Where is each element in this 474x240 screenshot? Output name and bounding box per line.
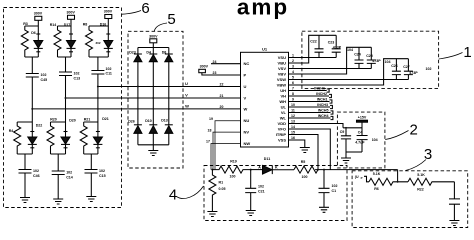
svg-text:INCH6: INCH6 bbox=[314, 87, 325, 91]
svg-text:100: 100 bbox=[302, 175, 308, 179]
svg-text:R8: R8 bbox=[83, 22, 88, 26]
svg-text:R3: R3 bbox=[23, 22, 28, 26]
svg-text:NU: NU bbox=[244, 118, 250, 123]
pin 24 NC stub bbox=[211, 63, 241, 65]
svg-text:D22: D22 bbox=[36, 124, 43, 128]
wire pin14 VFO bbox=[289, 129, 331, 170]
svg-text:R14: R14 bbox=[50, 23, 57, 27]
net INCH6 pin7 bbox=[289, 87, 330, 92]
wire pin5 VSW bbox=[289, 79, 409, 81]
wire pin6 VBW riser bbox=[289, 59, 409, 85]
wire pin2 VBU riser bbox=[289, 35, 337, 63]
wire bbox=[37, 20, 39, 26]
svg-text:102: 102 bbox=[426, 67, 432, 71]
ground bbox=[207, 212, 217, 217]
svg-text:R19: R19 bbox=[230, 160, 237, 164]
net INCH3 pin10 bbox=[289, 103, 333, 108]
svg-text:NW: NW bbox=[244, 141, 251, 146]
power +15V bbox=[357, 116, 368, 136]
svg-text:21: 21 bbox=[220, 94, 224, 98]
op-amp U1 package bbox=[241, 46, 289, 147]
wire pin17 NW bbox=[211, 144, 241, 170]
svg-text:C22: C22 bbox=[310, 39, 317, 43]
svg-text:D20: D20 bbox=[69, 118, 76, 122]
svg-text:D21: D21 bbox=[102, 117, 109, 121]
svg-text:20: 20 bbox=[220, 105, 224, 109]
svg-text:amp: amp bbox=[237, 0, 289, 20]
svg-text:18: 18 bbox=[208, 128, 212, 132]
svg-text:300V: 300V bbox=[34, 11, 43, 15]
ground bbox=[86, 197, 96, 202]
svg-text:C14: C14 bbox=[66, 176, 73, 180]
svg-text:NC: NC bbox=[244, 61, 250, 66]
wire unit6 loop rails bbox=[84, 122, 98, 154]
wire pin19 NU bbox=[215, 121, 241, 170]
svg-text:102: 102 bbox=[74, 72, 80, 76]
pin numbers right bbox=[291, 54, 295, 141]
svg-text:VBW: VBW bbox=[277, 82, 287, 87]
wire bbox=[152, 43, 154, 48]
net INCH2 pin8 bbox=[289, 92, 332, 97]
svg-text:4: 4 bbox=[169, 187, 177, 204]
capacitor C15 bbox=[85, 169, 106, 178]
pin labels left bbox=[244, 61, 251, 146]
node dots on rails bbox=[137, 86, 139, 88]
enclosure box 4 bbox=[204, 166, 347, 221]
svg-text:W: W bbox=[244, 106, 248, 111]
node shunt top bbox=[211, 169, 213, 171]
wire bbox=[57, 175, 59, 200]
wire bbox=[24, 173, 26, 198]
wire col3 lower bbox=[97, 74, 99, 122]
svg-text:R4: R4 bbox=[9, 129, 14, 133]
svg-text:104: 104 bbox=[385, 60, 391, 64]
svg-text:V: V bbox=[185, 93, 188, 98]
svg-text:WH: WH bbox=[279, 99, 286, 104]
wire pin16 VSS bbox=[289, 140, 305, 148]
capacitor C9 bbox=[340, 127, 351, 152]
svg-text:A: A bbox=[258, 166, 261, 170]
wire unit5 loop rails bbox=[51, 122, 66, 154]
svg-text:102: 102 bbox=[258, 184, 264, 188]
svg-text:102: 102 bbox=[332, 184, 338, 188]
svg-text:R20: R20 bbox=[50, 117, 57, 121]
svg-text:D11: D11 bbox=[264, 157, 270, 161]
wire bbox=[57, 154, 59, 171]
svg-text:D13: D13 bbox=[161, 118, 168, 122]
svg-text:302: 302 bbox=[95, 41, 100, 45]
svg-text:VBV: VBV bbox=[278, 71, 287, 76]
svg-text:C4: C4 bbox=[358, 131, 363, 135]
svg-text:22: 22 bbox=[220, 83, 224, 87]
svg-text:102: 102 bbox=[41, 73, 47, 77]
svg-text:VSV: VSV bbox=[278, 66, 286, 71]
capacitor C25 bbox=[366, 47, 381, 68]
wire bbox=[90, 173, 92, 197]
diode D11 bbox=[251, 157, 294, 174]
ground bbox=[319, 207, 329, 212]
svg-text:R21: R21 bbox=[84, 117, 91, 121]
capacitor C23 bbox=[328, 35, 342, 57]
wire bottom rail bbox=[346, 151, 362, 153]
node W rail bbox=[32, 108, 240, 110]
svg-text:102: 102 bbox=[99, 169, 105, 173]
resistor R6 bbox=[369, 172, 408, 191]
wire pin1 VSU bbox=[289, 57, 337, 59]
svg-text:D6: D6 bbox=[31, 31, 36, 35]
capacitor C14 bbox=[52, 171, 73, 180]
svg-text:NV: NV bbox=[244, 130, 250, 135]
svg-text:6: 6 bbox=[141, 0, 149, 17]
capacitor C4 bbox=[355, 131, 378, 152]
wire col3 upper bbox=[97, 57, 99, 71]
svg-text:5.1K: 5.1K bbox=[373, 172, 381, 176]
enclosure box 2 bbox=[337, 112, 385, 168]
svg-text:U: U bbox=[185, 81, 188, 86]
svg-text:300V: 300V bbox=[104, 10, 113, 14]
svg-text:U1: U1 bbox=[262, 46, 268, 51]
svg-text:UL: UL bbox=[281, 104, 287, 109]
ground bbox=[20, 198, 30, 203]
svg-text:C9: C9 bbox=[340, 130, 345, 134]
svg-text:V: V bbox=[244, 95, 247, 100]
svg-text:C13: C13 bbox=[74, 77, 81, 81]
wire pin 23 P bbox=[202, 73, 241, 75]
svg-text:P: P bbox=[361, 176, 363, 180]
wire pin13 VDD bbox=[289, 124, 344, 128]
svg-text:VSS: VSS bbox=[278, 137, 286, 142]
capacitor C22 bbox=[310, 35, 323, 57]
capacitor C26 bbox=[391, 59, 401, 80]
ground bbox=[148, 151, 158, 156]
pin numbers left bbox=[206, 60, 223, 144]
svg-text:(U: (U bbox=[355, 175, 359, 179]
ground bbox=[300, 148, 310, 153]
svg-text:VBU: VBU bbox=[278, 60, 287, 65]
svg-text:UH: UH bbox=[280, 88, 286, 93]
svg-text:INCH3: INCH3 bbox=[317, 103, 328, 107]
wire unit1 loop rails bbox=[25, 26, 39, 57]
svg-text:300V: 300V bbox=[66, 10, 75, 14]
enclosure box 1 bbox=[302, 31, 439, 88]
svg-text:VSU: VSU bbox=[278, 55, 286, 60]
svg-text:W: W bbox=[185, 103, 189, 108]
wire pin4 VBV riser bbox=[289, 47, 372, 74]
svg-text:5.1K: 5.1K bbox=[417, 173, 425, 177]
node V rail bbox=[66, 97, 241, 99]
svg-text:102: 102 bbox=[33, 169, 39, 173]
svg-text:VSW: VSW bbox=[277, 77, 286, 82]
svg-text:473P: 473P bbox=[409, 71, 418, 75]
svg-text:INCH5: INCH5 bbox=[318, 109, 329, 113]
svg-text:17: 17 bbox=[206, 140, 210, 144]
wire bbox=[107, 19, 109, 27]
svg-text:C45: C45 bbox=[41, 78, 48, 82]
wire col1 upper bbox=[31, 57, 33, 74]
resistor R1 bbox=[209, 170, 226, 212]
wire bbox=[90, 154, 92, 170]
wire bbox=[24, 154, 26, 170]
ground bbox=[449, 221, 459, 226]
svg-text:WL: WL bbox=[280, 115, 287, 120]
svg-text:R1: R1 bbox=[219, 181, 224, 185]
resistor R5 bbox=[294, 160, 318, 179]
svg-text:4.7uF: 4.7uF bbox=[355, 140, 365, 144]
svg-text:K: K bbox=[275, 166, 278, 170]
capacitor C1 bbox=[319, 169, 338, 208]
wire pin15 ITRIP bbox=[289, 135, 319, 170]
wire top rail bbox=[138, 47, 169, 49]
ground bbox=[246, 211, 256, 216]
wire junction from above bbox=[397, 170, 399, 182]
net INCH5 pin11 bbox=[289, 109, 333, 114]
svg-text:D10: D10 bbox=[145, 119, 152, 123]
svg-text:C46: C46 bbox=[33, 174, 40, 178]
svg-text:300V: 300V bbox=[200, 65, 209, 69]
svg-text:102: 102 bbox=[106, 67, 112, 71]
node U rail bbox=[98, 86, 241, 88]
svg-text:1: 1 bbox=[463, 44, 471, 61]
svg-text:473P: 473P bbox=[333, 45, 342, 49]
svg-text:R6: R6 bbox=[374, 187, 379, 191]
svg-text:104: 104 bbox=[372, 138, 378, 142]
svg-text:102: 102 bbox=[66, 171, 72, 175]
node UP connector bbox=[355, 175, 369, 182]
capacitor C11 bbox=[91, 67, 112, 76]
svg-text:C11: C11 bbox=[106, 71, 112, 75]
enclosure box 5 bbox=[128, 31, 183, 168]
svg-text:C23: C23 bbox=[328, 41, 335, 45]
svg-text:+15V: +15V bbox=[358, 116, 367, 120]
svg-text:104: 104 bbox=[347, 48, 353, 52]
svg-text:R5: R5 bbox=[301, 160, 306, 164]
svg-text:D26: D26 bbox=[128, 119, 135, 123]
resistor R19 bbox=[212, 160, 250, 179]
capacitor C2 bbox=[449, 182, 460, 221]
wire unit3 loop rails bbox=[89, 26, 108, 57]
wire unit2 loop rails bbox=[58, 26, 72, 57]
enclosure box 6 bbox=[4, 8, 122, 208]
svg-text:5: 5 bbox=[167, 11, 175, 28]
svg-text:VFO: VFO bbox=[278, 126, 286, 131]
svg-text:19: 19 bbox=[209, 117, 213, 121]
svg-text:INCH4: INCH4 bbox=[318, 114, 329, 118]
svg-text:ITRIP: ITRIP bbox=[276, 132, 287, 137]
svg-text:U: U bbox=[244, 84, 247, 89]
wire rail bbox=[343, 127, 362, 129]
svg-text:VH: VH bbox=[280, 93, 286, 98]
svg-text:C1: C1 bbox=[332, 189, 337, 193]
wire col2 upper bbox=[65, 57, 67, 72]
wire bottom rail bbox=[138, 144, 169, 146]
wire pin3 VSV bbox=[289, 68, 372, 70]
capacitor C46 bbox=[19, 169, 40, 178]
net INCH4 pin12 bbox=[289, 114, 333, 119]
svg-text:INCH1: INCH1 bbox=[317, 98, 328, 102]
wire unit4 loop rails bbox=[17, 122, 32, 154]
resistor R22 bbox=[408, 173, 454, 192]
wire bbox=[70, 19, 72, 26]
ground bbox=[341, 152, 351, 163]
ground bbox=[53, 199, 63, 204]
net INCH1 pin9 bbox=[289, 98, 332, 103]
capacitor C27 bbox=[403, 59, 418, 80]
capacitor C24 bbox=[354, 47, 363, 68]
wire col2 lower bbox=[65, 76, 67, 123]
svg-text:P: P bbox=[244, 72, 247, 77]
svg-text:2: 2 bbox=[410, 122, 418, 139]
svg-text:473P: 473P bbox=[372, 59, 381, 63]
svg-text:C15: C15 bbox=[99, 174, 106, 178]
svg-text:0.05: 0.05 bbox=[219, 187, 226, 191]
capacitor C13 bbox=[59, 72, 80, 81]
wire pin18 NV bbox=[213, 132, 241, 170]
svg-text:C21: C21 bbox=[258, 189, 265, 193]
svg-text:300V: 300V bbox=[149, 34, 158, 38]
svg-text:R22: R22 bbox=[417, 188, 424, 192]
svg-text:VDD: VDD bbox=[278, 121, 287, 126]
svg-text:100: 100 bbox=[230, 175, 236, 179]
capacitor C45 bbox=[26, 73, 47, 82]
pin labels right bbox=[276, 55, 287, 142]
enclosure box 3 bbox=[352, 171, 468, 228]
wire bbox=[152, 145, 154, 151]
svg-text:INCH2: INCH2 bbox=[316, 92, 327, 96]
capacitor C21 bbox=[245, 169, 264, 211]
svg-text:C24: C24 bbox=[354, 53, 361, 57]
wire bbox=[315, 169, 398, 171]
wire col1 lower bbox=[31, 77, 33, 122]
svg-text:VL: VL bbox=[281, 110, 287, 115]
